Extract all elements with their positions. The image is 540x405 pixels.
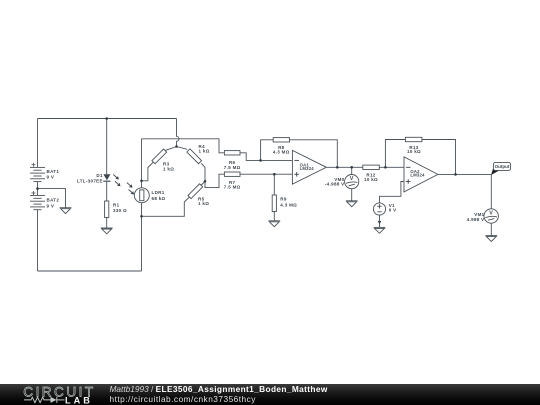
node plus tap <box>273 173 276 176</box>
battery BAT2 plus <box>32 191 36 195</box>
wire R9 top <box>273 174 275 195</box>
node OA2 fb <box>384 166 387 169</box>
svg-text:4.988 V: 4.988 V <box>467 217 485 222</box>
wire node R to R7 <box>205 174 224 187</box>
svg-text:9 V: 9 V <box>47 203 55 208</box>
wire V1 bottom to ground <box>379 215 381 227</box>
resistor R12 10k <box>363 165 380 169</box>
node L <box>140 180 143 183</box>
voltmeter VM0 <box>345 175 359 189</box>
node T <box>175 145 178 148</box>
wire OA2 plus from V1 <box>380 182 405 203</box>
LDR LDR1 <box>134 188 149 203</box>
node R <box>204 180 207 183</box>
wire R13 feedback left <box>385 140 405 168</box>
ground R9 <box>268 221 280 227</box>
ground VM1 <box>485 236 497 242</box>
node minus tap <box>259 159 262 162</box>
battery BAT1 <box>30 167 45 181</box>
LED D1 <box>103 174 110 181</box>
wire R4 lower elbow <box>201 163 205 181</box>
op-amp OA2 <box>404 157 438 192</box>
wire R8 feedback left <box>261 140 274 161</box>
svg-text:BAT1: BAT1 <box>47 169 60 174</box>
node OA2 out <box>454 173 457 176</box>
svg-text:V: V <box>489 211 493 217</box>
node Output flag <box>491 167 500 175</box>
svg-text:9 V: 9 V <box>47 175 55 180</box>
resistor R13 10k <box>405 137 422 141</box>
wire R6 to op-amp minus <box>240 153 293 161</box>
svg-text:1 kΩ: 1 kΩ <box>163 166 174 171</box>
footer text <box>110 385 328 395</box>
source V1 <box>373 203 385 215</box>
node LED top <box>105 117 108 120</box>
wire R13 feedback right <box>422 140 456 175</box>
ground V1 <box>374 227 386 233</box>
wire VM1 to ground <box>490 223 492 235</box>
svg-text:4.3 MΩ: 4.3 MΩ <box>273 150 290 155</box>
LDR light arrows <box>127 183 134 195</box>
node B <box>140 215 143 218</box>
V1 polarity arrow <box>378 221 382 225</box>
wire battery column top <box>37 119 39 168</box>
resistor R5 1k <box>188 184 203 199</box>
svg-text:R9: R9 <box>280 197 287 202</box>
resistor R6 7.5M <box>224 151 240 155</box>
svg-text:D1: D1 <box>96 173 103 178</box>
node battery mid <box>36 187 39 190</box>
svg-text:LM324: LM324 <box>300 166 315 171</box>
op-amp OA1 <box>292 150 326 184</box>
wire R12 to OA2 minus <box>379 166 404 168</box>
resistor R4 1k <box>187 149 202 164</box>
svg-text:330 Ω: 330 Ω <box>113 208 127 213</box>
ground VM0 <box>346 201 358 207</box>
resistor R3 1k <box>152 149 167 164</box>
svg-text:0 V: 0 V <box>389 208 397 213</box>
resistor R9 4.3M <box>272 195 276 212</box>
svg-text:10 kΩ: 10 kΩ <box>364 177 378 182</box>
wire output down to VM1 <box>490 174 492 209</box>
wire LED to R1 <box>106 181 108 201</box>
wire VM0 to ground <box>351 189 353 201</box>
footer bar <box>0 384 540 405</box>
logo zigzag wire <box>24 397 65 403</box>
resistor R1 330 <box>105 201 109 218</box>
wire supply hop to bridge top <box>177 119 180 147</box>
wire R3 lower elbow <box>142 162 154 181</box>
node dots <box>36 117 457 217</box>
ground battery mid <box>60 208 72 214</box>
labels <box>47 144 485 222</box>
wire LDR column upper <box>141 139 143 188</box>
wire between batteries <box>37 182 39 196</box>
wire bottom rail <box>38 270 142 272</box>
voltmeter VM1 <box>484 209 498 223</box>
svg-text:Output: Output <box>495 164 510 169</box>
wire R3 upper lead <box>165 147 177 151</box>
LED light arrows <box>113 174 120 186</box>
battery BAT2 <box>30 196 45 210</box>
wire node L horizontal to R6 <box>142 139 225 153</box>
wire top rail <box>38 118 177 120</box>
wire OA1 output <box>326 166 362 168</box>
wire R9 to ground <box>273 212 275 221</box>
wire OA2 output <box>438 173 491 175</box>
node OA1 fb <box>336 166 339 169</box>
wire R5 lower elbow <box>142 197 190 216</box>
wire VM0 tap <box>351 167 353 174</box>
svg-text:10 kΩ: 10 kΩ <box>407 149 421 154</box>
svg-text:4.3 MΩ: 4.3 MΩ <box>280 202 297 207</box>
svg-text:LDR1: LDR1 <box>152 190 165 195</box>
svg-text:V: V <box>350 176 354 182</box>
svg-text:-4.988 V: -4.988 V <box>325 182 345 187</box>
battery BAT1 plus <box>32 163 36 167</box>
svg-text:7.5 MΩ: 7.5 MΩ <box>224 185 241 190</box>
svg-text:68 kΩ: 68 kΩ <box>152 196 166 201</box>
wire R7 to op-amp plus <box>240 173 293 175</box>
ground R1 <box>101 228 113 234</box>
svg-text:1 kΩ: 1 kΩ <box>198 201 209 206</box>
wire battery bottom <box>37 210 39 272</box>
wire R8 feedback right <box>290 140 338 168</box>
svg-text:7.5 MΩ: 7.5 MΩ <box>224 165 241 170</box>
resistor R8 4.3M <box>273 138 289 142</box>
node VM0 tap <box>350 166 353 169</box>
svg-text:1 kΩ: 1 kΩ <box>199 149 210 154</box>
logo diode <box>51 397 57 403</box>
wire R5 upper lead <box>201 181 205 185</box>
svg-text:R1: R1 <box>113 203 120 208</box>
wire R4 upper lead <box>177 147 188 150</box>
svg-text:LTL-307EE: LTL-307EE <box>77 179 103 184</box>
wire R1 to ground <box>106 218 108 229</box>
wire LED column <box>106 119 108 175</box>
svg-text:LM324: LM324 <box>410 173 425 178</box>
wire battery mid to ground <box>38 189 66 208</box>
wire LDR bottom to node B <box>141 203 143 271</box>
svg-text:BAT2: BAT2 <box>47 198 60 203</box>
logo <box>0 382 120 405</box>
resistor R7 7.5M <box>224 172 240 176</box>
svg-text:LAB: LAB <box>65 395 93 405</box>
